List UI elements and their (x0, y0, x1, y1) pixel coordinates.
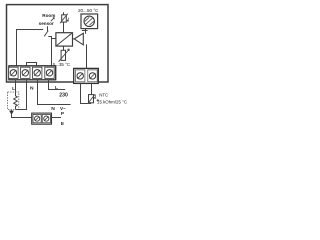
svg-text:V~: V~ (60, 106, 66, 111)
svg-text:N: N (30, 85, 34, 91)
svg-text:sensor: sensor (39, 21, 54, 26)
svg-text:E: E (61, 121, 64, 126)
svg-text:230: 230 (59, 92, 68, 98)
svg-text:20...50 °C: 20...50 °C (78, 8, 99, 13)
svg-text:NTC: NTC (99, 92, 108, 97)
svg-text:15 kOhm/25 °C: 15 kOhm/25 °C (97, 100, 127, 105)
svg-text:L: L (12, 86, 15, 92)
svg-text:P: P (61, 111, 64, 116)
svg-text:L: L (55, 85, 58, 91)
svg-text:N: N (51, 106, 55, 112)
